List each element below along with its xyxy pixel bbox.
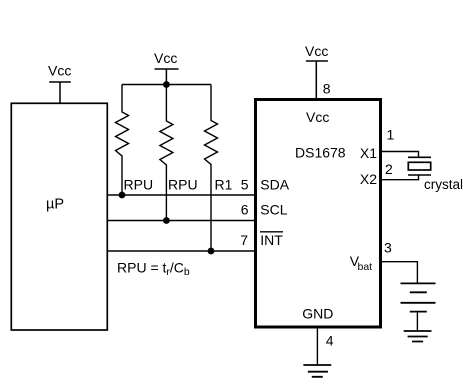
svg-text:RPU: RPU <box>124 177 154 193</box>
svg-text:R1: R1 <box>215 177 233 193</box>
svg-text:INT: INT <box>260 232 283 248</box>
wire X1 to crystal <box>381 152 419 158</box>
svg-text:Vcc: Vcc <box>154 50 177 66</box>
Vcc power symbol (left) <box>49 82 71 103</box>
wire battery to ground <box>416 312 418 331</box>
battery B1 plate 3 (long) <box>401 302 436 304</box>
wire SDA net <box>108 194 257 196</box>
wire SCL net <box>108 220 257 222</box>
wire: resistor top bus <box>122 84 211 86</box>
svg-text:crystal: crystal <box>424 177 463 192</box>
wire Vbat to battery <box>381 262 417 284</box>
crystal Y1 bottom plate <box>408 174 431 176</box>
crystal Y1 top plate <box>408 156 431 158</box>
svg-text:3: 3 <box>384 240 392 256</box>
crystal Y1 body <box>408 162 430 170</box>
svg-text:RPU: RPU <box>168 177 198 193</box>
wire GND pin to ground <box>316 329 318 366</box>
svg-text:8: 8 <box>323 81 331 97</box>
svg-text:Vcc: Vcc <box>306 109 329 125</box>
node dot at Vcc bus <box>163 81 170 88</box>
Vcc power symbol (middle) <box>155 69 179 85</box>
svg-text:SDA: SDA <box>260 176 289 192</box>
junction dot on INT net <box>208 248 215 255</box>
INT overline <box>260 231 283 233</box>
svg-text:7: 7 <box>240 232 248 248</box>
svg-text:1: 1 <box>387 126 395 142</box>
svg-text:5: 5 <box>241 176 249 192</box>
svg-text:µP: µP <box>46 197 64 213</box>
Vcc power symbol (top) <box>306 61 328 98</box>
svg-text:X2: X2 <box>360 171 377 187</box>
resistor RPU (first) <box>116 85 129 196</box>
microprocessor box µP <box>11 103 107 330</box>
battery B1 plate 1 (long) <box>401 282 436 284</box>
svg-text:GND: GND <box>302 305 333 321</box>
resistor RPU (second) <box>160 85 173 221</box>
DS1678 IC box <box>256 100 381 328</box>
svg-text:6: 6 <box>241 202 249 218</box>
svg-text:2: 2 <box>385 161 393 177</box>
svg-text:SCL: SCL <box>260 202 287 218</box>
battery B1 plate 2 (short) <box>410 291 427 293</box>
svg-text:RPU = tr/Cb: RPU = tr/Cb <box>117 260 190 279</box>
svg-text:4: 4 <box>326 333 334 349</box>
junction dot on SCL net <box>163 217 170 224</box>
svg-text:DS1678: DS1678 <box>295 145 346 161</box>
junction dot on SDA net <box>119 192 126 199</box>
resistor R1 (third) <box>205 85 218 252</box>
svg-text:bat: bat <box>358 261 373 273</box>
svg-text:Vcc: Vcc <box>305 43 328 59</box>
battery B1 plate 4 (short) <box>410 311 427 313</box>
wire X2 to crystal <box>381 175 419 180</box>
ground (battery) <box>404 331 432 342</box>
wire INT net <box>108 250 257 252</box>
svg-text:Vcc: Vcc <box>48 63 71 79</box>
ground (GND pin) <box>303 365 331 377</box>
svg-text:X1: X1 <box>360 145 377 161</box>
